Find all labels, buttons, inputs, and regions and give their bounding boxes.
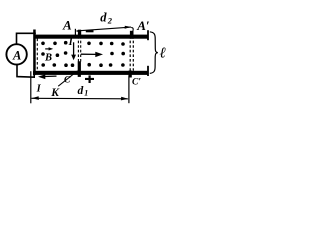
d2 right bend tick bbox=[131, 27, 133, 35]
svg-text:1: 1 bbox=[84, 89, 88, 98]
ammeter A bbox=[6, 44, 26, 64]
d2 left tick bbox=[74, 29, 76, 36]
rod A'C' top cap bbox=[130, 31, 134, 39]
brace for l bbox=[150, 32, 158, 74]
bottom rail bbox=[33, 71, 149, 75]
wire top from ammeter bbox=[17, 33, 36, 45]
left dashed line bbox=[36, 39, 38, 71]
svg-text:A: A bbox=[12, 49, 21, 63]
right end cap top bbox=[147, 30, 149, 40]
svg-text:ℓ: ℓ bbox=[160, 46, 166, 62]
svg-text:C: C bbox=[64, 76, 71, 86]
right end cap bottom bbox=[147, 66, 149, 76]
top rail bbox=[35, 35, 149, 39]
svg-text:C′: C′ bbox=[132, 77, 141, 87]
motion arrow right bbox=[81, 53, 96, 55]
d1 dimension line bbox=[32, 97, 129, 100]
field dots row 2 bbox=[41, 51, 125, 57]
d1 left tick bbox=[30, 71, 32, 103]
K pointer line bbox=[58, 71, 77, 86]
plus sign bbox=[85, 78, 94, 80]
svg-text:K: K bbox=[50, 87, 60, 99]
field dots row 3 bbox=[41, 63, 124, 67]
rod A'C' dashed lines bbox=[129, 36, 131, 71]
d2 dimension line bbox=[76, 27, 131, 31]
bottom I arrow (left) bbox=[40, 75, 57, 78]
svg-text:2: 2 bbox=[107, 16, 113, 26]
svg-text:d: d bbox=[100, 11, 107, 25]
svg-text:B: B bbox=[44, 53, 52, 64]
minus sign top bbox=[86, 30, 94, 32]
rod A'C' bottom cap bbox=[129, 71, 132, 78]
svg-text:A′: A′ bbox=[136, 18, 150, 33]
svg-text:A: A bbox=[62, 18, 72, 33]
wire bottom from ammeter bbox=[17, 64, 34, 77]
svg-text:d: d bbox=[78, 85, 84, 97]
left end bar (rod start position) bbox=[33, 30, 36, 76]
field dots row 1 bbox=[41, 41, 125, 46]
B vector label bbox=[45, 48, 50, 50]
rod AC dashed lines bbox=[77, 36, 79, 62]
current I down arrow in rod bbox=[73, 42, 75, 55]
rod AC bottom cap bbox=[78, 61, 81, 77]
rod AC top cap bbox=[78, 30, 81, 35]
d1 right tick bbox=[128, 75, 130, 103]
